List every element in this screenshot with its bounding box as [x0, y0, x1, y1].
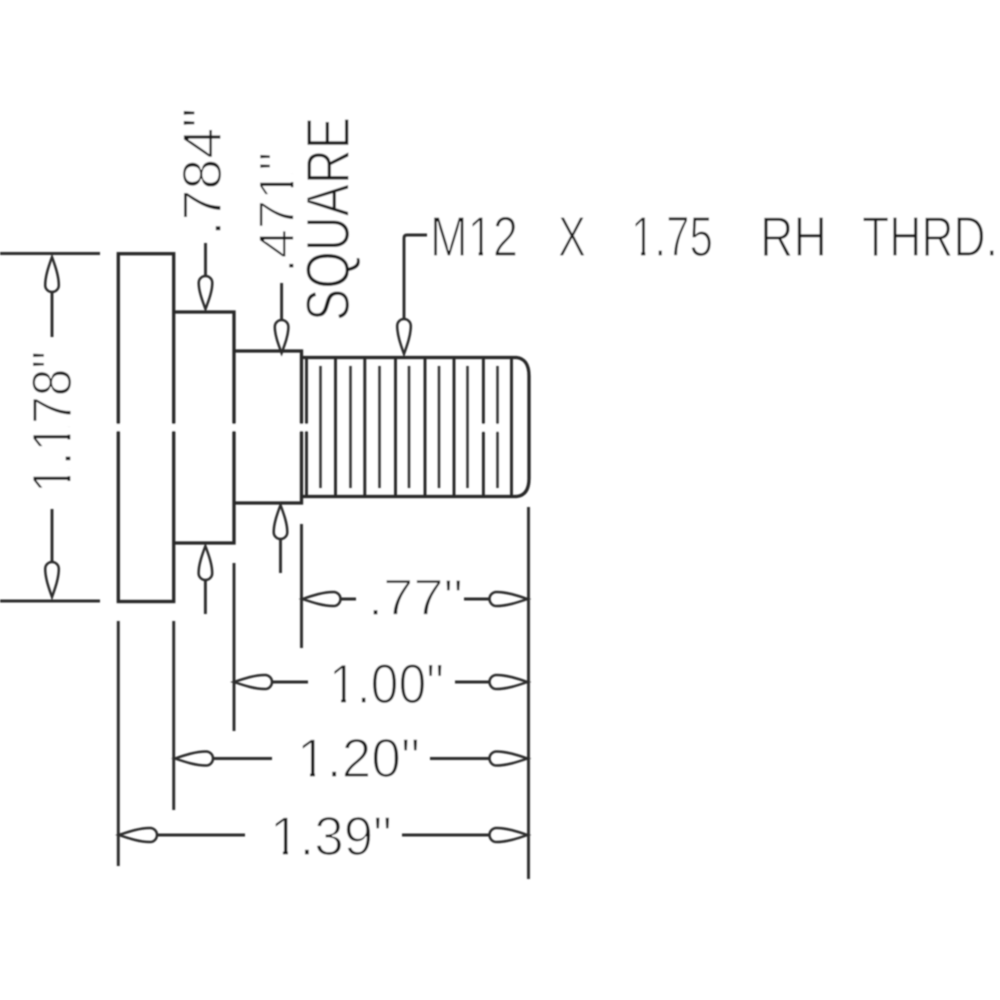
svg-text:.784": .784": [171, 108, 233, 236]
svg-text:1.20": 1.20": [297, 727, 420, 789]
svg-text:M12: M12: [430, 205, 518, 269]
svg-text:SQUARE: SQUARE: [294, 117, 362, 321]
svg-text:THRD.: THRD.: [862, 205, 998, 269]
svg-text:1.00": 1.00": [329, 652, 444, 715]
svg-text:RH: RH: [760, 205, 827, 269]
svg-text:1.75: 1.75: [631, 205, 713, 269]
svg-text:1.39": 1.39": [270, 805, 392, 867]
svg-text:X: X: [558, 205, 586, 269]
svg-text:1.178": 1.178": [20, 351, 83, 493]
svg-text:.77": .77": [368, 569, 463, 626]
